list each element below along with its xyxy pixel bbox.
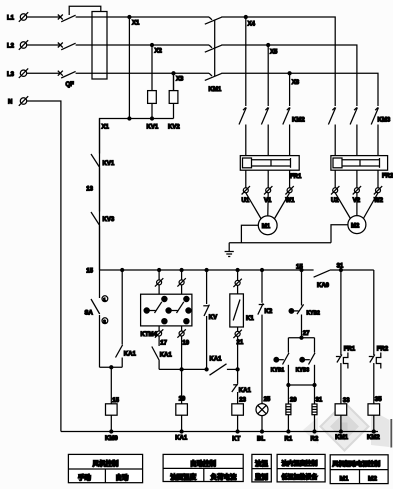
svg-text:31: 31 [316, 398, 323, 404]
contactor KM1 linkage [209, 20, 222, 94]
svg-text:油温: 油温 [255, 458, 269, 467]
contact KA0 on bus [314, 270, 330, 289]
terminal W1 [285, 186, 295, 204]
svg-text:手动: 手动 [78, 473, 92, 482]
contact K2 lamp branch [258, 269, 273, 404]
wire L3 [27, 72, 60, 74]
wire L2 right [221, 45, 357, 106]
wire L1 right [221, 17, 335, 106]
svg-text:M1: M1 [340, 475, 349, 482]
svg-text:KV1: KV1 [103, 161, 115, 167]
svg-text:KA1: KA1 [210, 357, 223, 363]
bus 31 [296, 264, 374, 271]
contactor KM2 pole 3 [283, 108, 306, 156]
svg-text:KM3: KM3 [378, 118, 391, 124]
resistor KV2 [168, 73, 180, 130]
level switch K1 [230, 294, 255, 327]
svg-text:KM1: KM1 [209, 87, 222, 93]
contactor KM1 pole 3 [205, 73, 222, 80]
breaker QF box [92, 12, 107, 80]
contact KYB3 [296, 338, 315, 385]
terminal U2 [331, 186, 339, 204]
contact KYB1 [271, 338, 289, 385]
wire L2 [27, 44, 60, 46]
svg-text:23: 23 [239, 398, 246, 404]
svg-text:M2: M2 [351, 223, 360, 229]
resistor KV1 [147, 91, 159, 131]
svg-text:L2: L2 [7, 44, 15, 50]
svg-text:油面温度: 油面温度 [170, 472, 197, 481]
contact hooks KM2 KM3 [243, 108, 378, 111]
coil KM2 [367, 404, 380, 441]
wire L3 to KM1 [76, 72, 209, 74]
thermal relay FR1 [240, 156, 302, 180]
svg-text:U1: U1 [242, 198, 250, 204]
svg-text:X1: X1 [102, 125, 110, 131]
breaker QF pole 2 [58, 43, 76, 50]
wire SA KA1 join [100, 366, 123, 404]
terminal 17 below box [155, 326, 168, 346]
contact FR1 [336, 269, 356, 405]
terminal V1 [264, 186, 272, 204]
terminal K1 top [233, 269, 241, 294]
svg-text:FR1: FR1 [290, 174, 302, 180]
svg-text:25: 25 [264, 397, 271, 403]
terminal L2 [7, 40, 28, 50]
terminal V2 [353, 186, 361, 204]
terminal W2 [374, 186, 384, 204]
node X4 tap [244, 16, 255, 107]
wire bus X1 [100, 117, 174, 270]
table winding temp control [277, 454, 325, 482]
breaker QF linkage bracket [69, 6, 101, 15]
svg-text:L3: L3 [7, 72, 15, 78]
node X2 tap [151, 44, 163, 91]
svg-text:35: 35 [375, 397, 382, 403]
svg-text:QF: QF [66, 82, 75, 88]
wires to motor M1 [246, 193, 290, 220]
motor M1 [258, 216, 277, 235]
svg-text:KM1: KM1 [335, 435, 348, 441]
node X6 tap [288, 72, 300, 106]
switch SA position 1 [102, 296, 108, 302]
rail 17-19 [159, 368, 208, 371]
contactor KM3 pole 1 [328, 108, 335, 156]
wire FR1 to terminals [246, 170, 290, 188]
svg-text:KA1: KA1 [239, 388, 252, 394]
svg-text:KM2: KM2 [292, 118, 305, 124]
box contact arms [149, 302, 184, 313]
contact KA1 on rail [210, 357, 238, 376]
svg-text:13: 13 [86, 187, 93, 193]
watermark [303, 401, 392, 452]
svg-text:15: 15 [112, 398, 119, 404]
svg-text:监测: 监测 [255, 472, 269, 481]
svg-text:FR2: FR2 [377, 347, 389, 353]
coil KM0 [105, 404, 118, 442]
svg-text:27: 27 [303, 331, 310, 337]
svg-text:33: 33 [343, 398, 350, 404]
node 27 [288, 331, 314, 339]
wire N [27, 101, 61, 432]
node X5 tap [267, 44, 278, 107]
coil KA1 [175, 404, 188, 442]
breaker QF pole 1 [58, 15, 76, 22]
table fan start control [330, 455, 388, 484]
svg-text:K2: K2 [265, 309, 273, 315]
bus 15 [100, 269, 314, 271]
svg-text:L1: L1 [7, 16, 15, 22]
box contact pivot circles [144, 296, 191, 323]
svg-text:R1: R1 [285, 436, 293, 442]
svg-text:风机控制: 风机控制 [93, 459, 120, 468]
bottom bus N [61, 430, 378, 433]
coil KT [232, 404, 244, 443]
contactor KM3 pole 2 [350, 108, 357, 156]
svg-text:KM2: KM2 [367, 435, 380, 441]
wire 21 down [236, 336, 239, 383]
wire under 19 [180, 336, 183, 371]
contact KA1 under 17 [152, 336, 173, 369]
wire M1 to ground bus [241, 225, 258, 242]
svg-text:低温加热设备: 低温加热设备 [281, 473, 319, 481]
wire L2 to KM1 [76, 44, 209, 46]
svg-text:KA1: KA1 [124, 352, 137, 358]
svg-text:15: 15 [86, 269, 93, 275]
wire to coil KA1 [179, 369, 186, 403]
breaker QF pole 3 [58, 71, 76, 88]
wires to motor M2 [335, 193, 378, 219]
contact FR2 [369, 270, 389, 404]
contact KA1 on K1 branch [232, 383, 252, 404]
contact KV3 [91, 212, 115, 226]
svg-text:17: 17 [160, 340, 167, 346]
svg-text:负荷电流: 负荷电流 [211, 472, 238, 481]
switch SA position 2 [102, 318, 108, 324]
svg-text:油内温度控制: 油内温度控制 [282, 459, 318, 467]
wire FR2 to terminals [335, 170, 378, 188]
lamp BL [256, 404, 268, 443]
wire L1 to KM1 [76, 16, 209, 18]
svg-text:KT: KT [232, 436, 240, 442]
node X1 tap [128, 16, 140, 119]
motor M2 [348, 216, 366, 234]
svg-text:R2: R2 [311, 436, 319, 442]
terminal N [8, 96, 28, 106]
terminal L1 [7, 12, 28, 22]
node X3 tap [172, 72, 184, 91]
table oil temp [252, 454, 271, 482]
svg-text:KA0: KA0 [317, 283, 330, 289]
svg-text:FR1: FR1 [344, 347, 356, 353]
coil KM1 [335, 404, 349, 441]
controller box KTM4 [141, 294, 192, 338]
svg-text:KV3: KV3 [103, 217, 115, 223]
svg-text:KV1: KV1 [147, 125, 159, 131]
svg-text:X4: X4 [248, 22, 256, 28]
svg-text:KYB1: KYB1 [271, 367, 285, 373]
terminal L3 [7, 68, 28, 78]
contact KV1 [91, 119, 115, 168]
svg-text:19: 19 [179, 397, 186, 403]
heater R2 [311, 385, 323, 442]
contactor KM1 pole 2 [205, 45, 222, 52]
heater R1 [285, 385, 298, 442]
svg-text:X6: X6 [292, 80, 300, 86]
svg-text:N: N [8, 100, 12, 106]
svg-text:X5: X5 [270, 50, 278, 56]
svg-text:29: 29 [290, 398, 297, 404]
svg-text:X3: X3 [176, 77, 184, 83]
svg-text:X2: X2 [155, 49, 163, 55]
table fan control [68, 454, 142, 482]
svg-text:KYB3: KYB3 [296, 367, 310, 373]
svg-text:KYB2: KYB2 [307, 311, 321, 317]
contactor KM1 pole 1 [205, 17, 222, 24]
contact KV branch [203, 269, 217, 370]
contact KYB2 [289, 269, 320, 338]
svg-text:SA: SA [85, 311, 94, 317]
svg-text:19: 19 [182, 340, 189, 346]
contactor KM2 pole 1 [239, 108, 246, 156]
wire L1 [27, 16, 60, 18]
contactor KM3 pole 3 [371, 108, 391, 156]
node 13 [86, 168, 99, 212]
table auto control [163, 454, 243, 481]
ground [225, 243, 234, 257]
terminal 19 below box [177, 326, 189, 346]
thermal relay FR2 [331, 156, 393, 180]
svg-text:X1: X1 [132, 21, 140, 27]
terminal on branch 17 [155, 269, 163, 295]
svg-text:KV2: KV2 [168, 125, 180, 131]
rail 29-31 [287, 384, 316, 387]
svg-text:W1: W1 [286, 198, 296, 204]
switch SA manual branch [85, 270, 100, 367]
contactor KM2 pole 2 [261, 108, 268, 156]
svg-text:自动控制: 自动控制 [190, 458, 217, 467]
svg-text:BL: BL [257, 436, 265, 442]
svg-text:自动: 自动 [116, 473, 130, 482]
wire L3 right [221, 73, 378, 106]
terminal U1 [242, 186, 251, 204]
svg-text:M1: M1 [262, 224, 271, 230]
svg-text:KM0: KM0 [105, 436, 118, 442]
contact KA1 auto branch [116, 269, 137, 368]
svg-text:风机起动电源控制: 风机起动电源控制 [332, 460, 380, 468]
wire to node 15 [86, 226, 99, 275]
svg-text:FR2: FR2 [382, 174, 393, 180]
svg-text:K1: K1 [246, 316, 254, 322]
wire M2 to ground bus [331, 225, 348, 243]
svg-text:KA1: KA1 [175, 436, 188, 442]
svg-text:KV: KV [209, 315, 217, 321]
svg-text:KA1: KA1 [160, 353, 173, 359]
svg-text:M2: M2 [368, 475, 377, 482]
terminal 21 [233, 327, 243, 346]
ground bus [229, 242, 331, 244]
terminal on branch 19 [177, 269, 185, 295]
svg-text:W2: W2 [374, 198, 384, 204]
